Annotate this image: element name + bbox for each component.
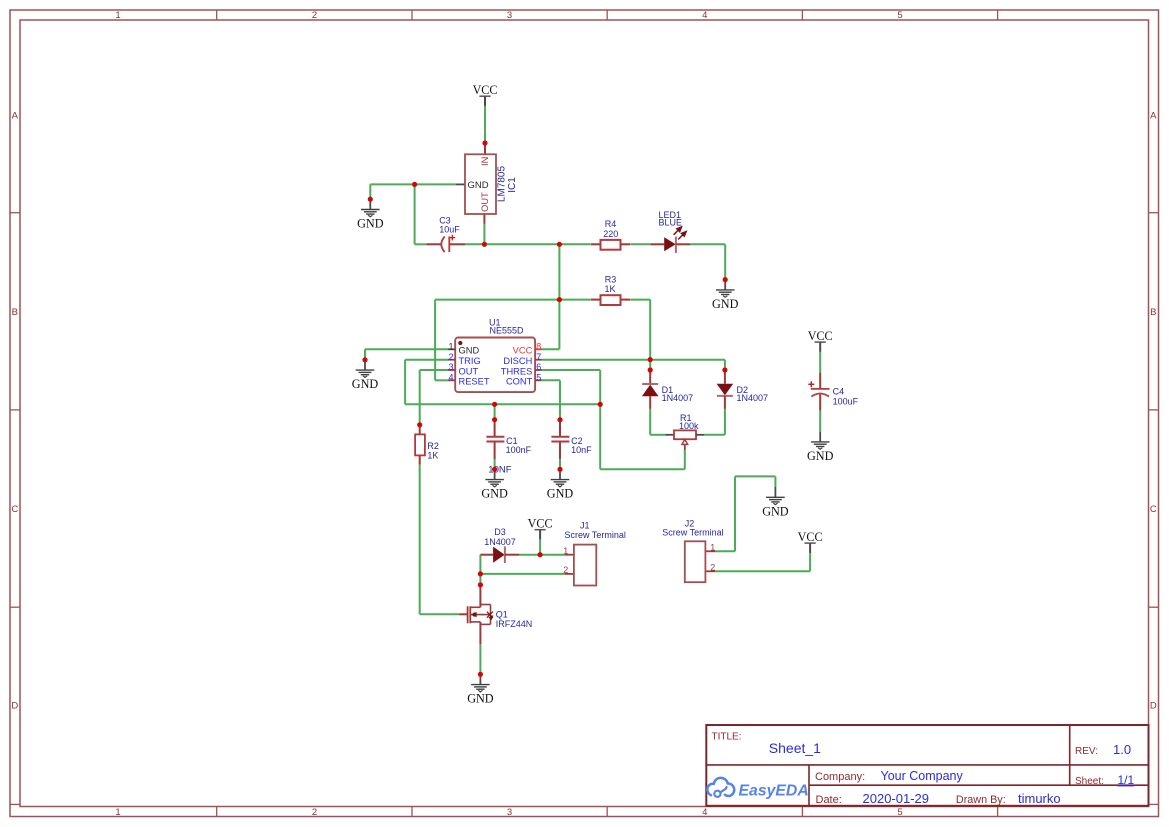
wire [465, 243, 484, 245]
regulator IC1 LM7805 [456, 143, 518, 224]
ground (near IC1) [357, 199, 384, 230]
node junction [648, 367, 653, 372]
svg-text:A: A [1150, 111, 1157, 122]
diode D2 1N4007 [717, 370, 768, 409]
power flag VCC (C4) [808, 329, 833, 352]
node junction [557, 297, 562, 302]
capacitor C1 100nF [486, 420, 531, 459]
svg-text:OUT: OUT [480, 192, 490, 212]
wire [419, 465, 421, 615]
svg-text:10nF: 10nF [571, 445, 592, 455]
svg-text:R4: R4 [605, 219, 617, 229]
svg-text:J1: J1 [580, 520, 590, 530]
wire [649, 409, 651, 435]
svg-text:2020-01-29: 2020-01-29 [863, 791, 930, 806]
node junction [478, 571, 483, 576]
svg-text:1N4007: 1N4007 [737, 393, 769, 403]
node junction [557, 242, 562, 247]
transistor Q1 IRFZ44N [460, 585, 533, 644]
ruler row tick marks [10, 213, 1159, 805]
svg-text:2: 2 [448, 352, 453, 362]
svg-text:Screw Terminal: Screw Terminal [565, 530, 626, 540]
title block frame [706, 725, 1148, 806]
svg-text:D: D [1150, 701, 1157, 712]
svg-text:GND: GND [762, 504, 789, 518]
wire [369, 184, 371, 199]
svg-text:IC1: IC1 [507, 177, 518, 193]
power flag VCC (J2) [798, 530, 823, 553]
wire [479, 644, 481, 674]
svg-text:10NF: 10NF [488, 465, 511, 476]
wire [420, 369, 448, 371]
node junction [648, 357, 653, 362]
ground (LED1 cathode) [712, 280, 739, 311]
wire [809, 551, 811, 571]
svg-text:timurko: timurko [1018, 791, 1061, 806]
svg-text:BLUE: BLUE [659, 217, 683, 227]
wire [600, 468, 685, 470]
connector J1 Screw Terminal [563, 520, 626, 585]
node junction [557, 467, 562, 472]
svg-text:IRFZ44N: IRFZ44N [496, 619, 533, 629]
svg-text:6: 6 [536, 362, 541, 372]
wire [734, 476, 736, 551]
svg-text:CONT: CONT [506, 377, 533, 387]
svg-text:1: 1 [115, 10, 120, 21]
wire [539, 539, 541, 554]
svg-text:Sheet:: Sheet: [1075, 776, 1104, 787]
svg-text:Company:: Company: [815, 771, 865, 783]
svg-text:VCC: VCC [798, 530, 823, 544]
wire [483, 224, 485, 245]
ground (C2) [547, 469, 574, 500]
svg-text:4: 4 [702, 10, 707, 21]
node junction [722, 367, 727, 372]
svg-text:100uF: 100uF [833, 396, 859, 406]
svg-text:GND: GND [481, 487, 508, 501]
svg-text:VCC: VCC [528, 517, 553, 531]
svg-text:GND: GND [712, 297, 739, 311]
svg-text:C4: C4 [833, 386, 845, 396]
wire [558, 244, 560, 349]
svg-text:2: 2 [312, 10, 317, 21]
svg-text:2: 2 [563, 565, 568, 575]
svg-text:C: C [1150, 504, 1157, 515]
svg-text:1.0: 1.0 [1113, 742, 1131, 757]
wire [559, 459, 561, 469]
ruler column tick marks [217, 10, 998, 817]
ground (C4) [807, 432, 834, 463]
svg-text:VCC: VCC [808, 329, 833, 343]
node junction [723, 277, 728, 282]
wire [494, 404, 496, 419]
svg-text:3: 3 [448, 362, 453, 372]
capacitor C2 10nF [551, 420, 592, 459]
svg-text:TITLE:: TITLE: [712, 732, 742, 743]
diode D1 1N4007 [642, 370, 693, 409]
svg-text:8: 8 [536, 341, 541, 351]
wire [419, 370, 421, 425]
wire [599, 370, 601, 469]
svg-text:Sheet_1: Sheet_1 [769, 740, 821, 756]
svg-text:GND: GND [459, 346, 480, 356]
wire [519, 554, 564, 556]
svg-text:3: 3 [507, 10, 512, 21]
resistor R4 220 [591, 219, 630, 250]
wire [715, 550, 735, 552]
ground (U1 pin 1) [352, 360, 379, 391]
power flag VCC (J1) [528, 517, 553, 540]
op-amp U1 NE555D (timer IC) [448, 317, 542, 392]
node junction [482, 140, 487, 145]
wire [420, 613, 460, 615]
node junction [492, 417, 497, 422]
svg-text:GND: GND [547, 487, 574, 501]
svg-text:D3: D3 [494, 527, 506, 537]
wire [542, 348, 560, 350]
svg-text:NE555D: NE555D [490, 325, 525, 335]
wire [724, 244, 726, 279]
wire [480, 573, 564, 575]
wire [684, 450, 686, 469]
svg-text:Date:: Date: [816, 794, 842, 806]
svg-text:IN: IN [480, 157, 490, 166]
node junction [492, 402, 497, 407]
svg-text:C: C [11, 504, 18, 515]
wire [704, 434, 725, 436]
svg-text:1: 1 [448, 341, 453, 351]
svg-text:1: 1 [115, 807, 120, 818]
capacitor C3 10uF [426, 215, 465, 252]
svg-text:1N4007: 1N4007 [484, 537, 516, 547]
node junction [598, 402, 603, 407]
wire [405, 359, 448, 361]
wire [715, 570, 810, 572]
svg-text:1/1: 1/1 [1118, 773, 1135, 787]
wire [690, 243, 725, 245]
svg-text:B: B [1150, 307, 1156, 318]
wire [630, 299, 650, 301]
wire [364, 349, 366, 360]
svg-text:220: 220 [603, 229, 618, 239]
svg-text:VCC: VCC [473, 83, 498, 97]
wire [370, 183, 456, 185]
EasyEDA logo [707, 778, 734, 797]
wire [484, 106, 486, 143]
ruler row letters [11, 111, 1157, 712]
svg-text:Drawn By:: Drawn By: [956, 794, 1006, 806]
svg-text:GND: GND [807, 449, 834, 463]
node junction [362, 357, 367, 362]
svg-text:100k: 100k [679, 421, 699, 431]
wire [404, 360, 406, 405]
svg-text:VCC: VCC [513, 346, 533, 356]
svg-text:A: A [12, 111, 19, 122]
svg-text:3: 3 [507, 807, 512, 818]
node junction [492, 467, 497, 472]
svg-text:TRIG: TRIG [459, 356, 481, 366]
diode D3 1N4007 [480, 527, 519, 563]
ground (J2 pin 1) [762, 487, 789, 518]
svg-text:1K: 1K [604, 284, 615, 294]
svg-text:D: D [11, 701, 18, 712]
node junction [417, 422, 422, 427]
svg-text:1: 1 [710, 542, 715, 552]
connector J2 Screw Terminal [662, 518, 723, 582]
ground (C1) [481, 469, 508, 500]
svg-text:Your Company: Your Company [881, 769, 964, 783]
svg-text:REV:: REV: [1075, 746, 1098, 757]
wire [819, 352, 821, 373]
capacitor C4 100uF [808, 373, 858, 411]
resistor R3 1K [591, 274, 630, 305]
wire [724, 360, 726, 370]
svg-text:4: 4 [448, 372, 453, 382]
svg-text:RESET: RESET [459, 377, 490, 387]
wire [649, 300, 651, 360]
wire [494, 459, 496, 469]
wire [434, 300, 436, 381]
node junction [478, 582, 483, 587]
svg-text:7: 7 [536, 352, 541, 362]
svg-text:2: 2 [710, 562, 715, 572]
svg-text:GND: GND [352, 377, 379, 391]
node junction [412, 182, 417, 187]
potentiometer R1 100k [666, 413, 705, 450]
svg-text:1: 1 [563, 546, 568, 556]
svg-text:B: B [12, 307, 18, 318]
wire [559, 380, 561, 419]
wire [479, 555, 481, 585]
wire [724, 409, 726, 435]
svg-text:100nF: 100nF [506, 445, 532, 455]
wire [542, 359, 725, 361]
svg-text:5: 5 [897, 807, 902, 818]
wire [774, 476, 776, 487]
wire [435, 299, 591, 301]
wire [415, 243, 427, 245]
ground (Q1 source) [467, 674, 494, 705]
wire [819, 411, 821, 432]
svg-text:R3: R3 [605, 274, 617, 284]
node junction [557, 417, 562, 422]
wire [414, 184, 416, 244]
wire [650, 434, 665, 436]
svg-text:10uF: 10uF [439, 224, 460, 234]
node junction [538, 552, 543, 557]
svg-text:1K: 1K [427, 450, 438, 460]
svg-text:OUT: OUT [459, 366, 479, 376]
svg-text:GND: GND [357, 217, 384, 231]
svg-text:GND: GND [467, 692, 494, 706]
svg-text:5: 5 [536, 372, 541, 382]
wire [405, 403, 600, 405]
wire [365, 348, 448, 350]
svg-text:5: 5 [897, 10, 902, 21]
svg-text:EasyEDA: EasyEDA [739, 782, 809, 799]
LED LED1 BLUE [650, 210, 690, 253]
ruler column numbers [115, 10, 902, 818]
wire [649, 360, 651, 370]
wire [435, 379, 448, 381]
wire [542, 369, 601, 371]
node junction [482, 242, 487, 247]
svg-text:DISCH: DISCH [503, 356, 532, 366]
node junction [368, 197, 373, 202]
wire [542, 379, 561, 381]
wire [735, 475, 775, 477]
svg-text:4: 4 [702, 807, 707, 818]
resistor R2 1K [415, 425, 439, 465]
svg-text:GND: GND [468, 180, 489, 191]
power flag VCC (top, IC1 input) [473, 83, 498, 106]
node junction [478, 672, 483, 677]
svg-text:THRES: THRES [501, 366, 533, 376]
svg-text:2: 2 [312, 807, 317, 818]
wire [630, 243, 650, 245]
svg-text:Screw Terminal: Screw Terminal [662, 528, 723, 538]
wire [484, 243, 590, 245]
svg-text:1N4007: 1N4007 [662, 393, 694, 403]
